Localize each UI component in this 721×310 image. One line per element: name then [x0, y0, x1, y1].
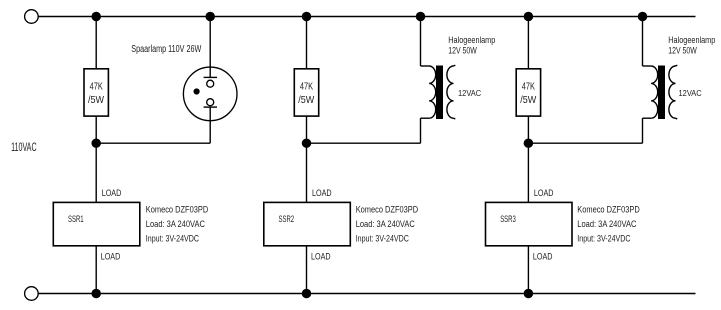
svg-text:LOAD: LOAD — [102, 188, 122, 199]
svg-text:LOAD: LOAD — [534, 188, 554, 199]
svg-text:LOAD: LOAD — [311, 251, 331, 262]
svg-text:12VAC: 12VAC — [458, 88, 481, 98]
svg-text:SSR2: SSR2 — [279, 214, 295, 225]
svg-text:Komeco DZF03PD: Komeco DZF03PD — [146, 204, 209, 214]
svg-text:Input: 3V-24VDC: Input: 3V-24VDC — [356, 234, 409, 244]
svg-text:Halogeenlamp: Halogeenlamp — [448, 35, 495, 45]
svg-text:12V 50W: 12V 50W — [448, 46, 477, 56]
svg-text:110VAC: 110VAC — [11, 142, 36, 154]
svg-text:47K: 47K — [90, 80, 103, 92]
svg-text:Load: 3A 240VAC: Load: 3A 240VAC — [356, 219, 415, 229]
svg-text:47K: 47K — [300, 80, 313, 92]
svg-text:47K: 47K — [522, 80, 535, 92]
svg-text:/5W: /5W — [298, 94, 314, 106]
svg-text:Komeco DZF03PD: Komeco DZF03PD — [577, 204, 640, 214]
svg-text:LOAD: LOAD — [533, 251, 553, 262]
svg-text:Halogeenlamp: Halogeenlamp — [668, 35, 715, 45]
svg-text:SSR1: SSR1 — [68, 214, 84, 225]
svg-text:Load: 3A 240VAC: Load: 3A 240VAC — [577, 219, 636, 229]
svg-text:12VAC: 12VAC — [679, 88, 702, 98]
svg-text:SSR3: SSR3 — [500, 214, 516, 225]
svg-text:Load: 3A 240VAC: Load: 3A 240VAC — [146, 219, 205, 229]
svg-text:LOAD: LOAD — [101, 251, 121, 262]
svg-text:/5W: /5W — [520, 94, 536, 106]
svg-text:12V 50W: 12V 50W — [668, 46, 697, 56]
svg-text:Komeco DZF03PD: Komeco DZF03PD — [356, 204, 419, 214]
svg-text:/5W: /5W — [88, 94, 104, 106]
svg-text:Spaarlamp 110V 26W: Spaarlamp 110V 26W — [131, 44, 201, 55]
svg-text:Input: 3V-24VDC: Input: 3V-24VDC — [146, 234, 199, 244]
svg-text:Input: 3V-24VDC: Input: 3V-24VDC — [577, 234, 630, 244]
svg-text:LOAD: LOAD — [312, 188, 332, 199]
